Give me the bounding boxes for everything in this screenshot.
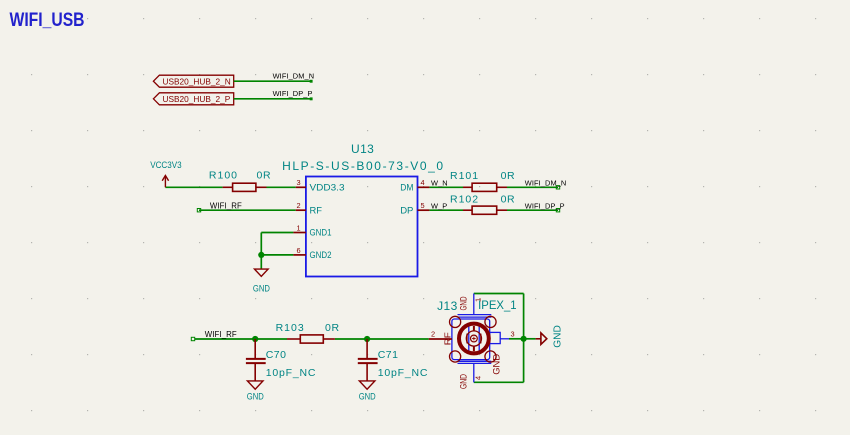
svg-text:VDD3.3: VDD3.3 bbox=[310, 182, 345, 193]
svg-text:2: 2 bbox=[431, 330, 435, 339]
svg-text:USB20_HUB_2_P: USB20_HUB_2_P bbox=[163, 94, 231, 104]
svg-text:C71: C71 bbox=[378, 349, 399, 361]
svg-text:WIFI_DM_N: WIFI_DM_N bbox=[525, 179, 567, 188]
svg-text:10pF_NC: 10pF_NC bbox=[266, 367, 317, 379]
svg-text:R101: R101 bbox=[450, 170, 479, 182]
svg-text:3: 3 bbox=[511, 330, 515, 339]
svg-text:10pF_NC: 10pF_NC bbox=[378, 367, 429, 379]
svg-text:GND: GND bbox=[247, 392, 264, 402]
svg-text:HLP-S-US-B00-73-V0_0: HLP-S-US-B00-73-V0_0 bbox=[282, 159, 443, 173]
svg-text:J13: J13 bbox=[437, 299, 458, 313]
svg-text:R102: R102 bbox=[450, 194, 479, 206]
svg-text:WIFI_RF: WIFI_RF bbox=[205, 329, 237, 339]
svg-text:U13: U13 bbox=[351, 142, 374, 156]
svg-text:1: 1 bbox=[474, 298, 483, 302]
svg-text:0R: 0R bbox=[325, 322, 340, 334]
svg-text:WIFI_RF: WIFI_RF bbox=[210, 200, 242, 210]
svg-text:0R: 0R bbox=[501, 194, 516, 206]
svg-text:DM: DM bbox=[400, 182, 413, 193]
svg-text:4: 4 bbox=[474, 376, 483, 380]
svg-text:C70: C70 bbox=[266, 349, 287, 361]
svg-text:GND: GND bbox=[458, 374, 468, 389]
svg-text:GND: GND bbox=[491, 354, 502, 375]
svg-text:RF: RF bbox=[444, 332, 453, 345]
svg-text:R100: R100 bbox=[209, 170, 238, 182]
svg-text:GND2: GND2 bbox=[310, 250, 332, 261]
svg-text:0R: 0R bbox=[257, 170, 272, 182]
svg-text:RF: RF bbox=[310, 205, 323, 216]
svg-text:6: 6 bbox=[297, 246, 301, 255]
svg-text:USB20_HUB_2_N: USB20_HUB_2_N bbox=[163, 77, 231, 87]
svg-text:W_P: W_P bbox=[431, 202, 447, 211]
svg-text:R103: R103 bbox=[276, 322, 305, 334]
svg-text:WIFI_USB: WIFI_USB bbox=[10, 9, 85, 31]
svg-text:VCC3V3: VCC3V3 bbox=[150, 160, 182, 170]
svg-text:IPEX_1: IPEX_1 bbox=[478, 298, 517, 312]
svg-text:0R: 0R bbox=[501, 170, 516, 182]
svg-text:4: 4 bbox=[421, 178, 425, 187]
svg-text:3: 3 bbox=[297, 178, 301, 187]
svg-text:GND: GND bbox=[553, 325, 564, 348]
svg-text:GND: GND bbox=[458, 296, 468, 310]
svg-text:5: 5 bbox=[421, 201, 425, 210]
svg-text:2: 2 bbox=[297, 201, 301, 210]
svg-text:DP: DP bbox=[400, 205, 413, 216]
svg-text:GND: GND bbox=[359, 392, 376, 402]
svg-text:WIFI_DM_N: WIFI_DM_N bbox=[273, 72, 315, 81]
svg-text:GND1: GND1 bbox=[310, 228, 332, 239]
svg-text:GND: GND bbox=[253, 284, 270, 294]
svg-text:WIFI_DP_P: WIFI_DP_P bbox=[273, 89, 313, 98]
svg-text:WIFI_DP_P: WIFI_DP_P bbox=[525, 202, 565, 211]
svg-text:1: 1 bbox=[297, 223, 301, 232]
svg-text:W_N: W_N bbox=[431, 179, 448, 188]
